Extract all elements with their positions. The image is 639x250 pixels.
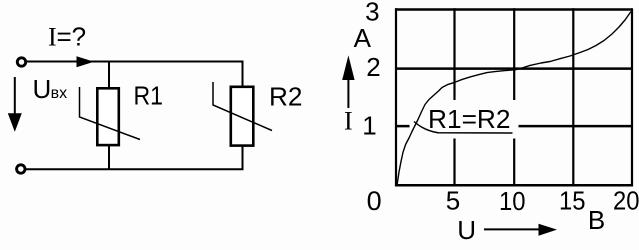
svg-text:U: U — [457, 215, 476, 245]
svg-text:1: 1 — [362, 111, 376, 141]
svg-text:I: I — [48, 23, 57, 52]
svg-text:U: U — [33, 74, 52, 104]
svg-text:R1=R2: R1=R2 — [428, 104, 511, 134]
svg-text:A: A — [354, 23, 372, 53]
svg-text:I: I — [344, 107, 353, 136]
svg-text:вх: вх — [51, 85, 68, 102]
svg-text:15: 15 — [559, 186, 586, 216]
svg-text:R2: R2 — [269, 82, 303, 112]
svg-text:10: 10 — [499, 186, 526, 216]
svg-text:2: 2 — [366, 52, 380, 82]
svg-text:20: 20 — [613, 186, 639, 216]
svg-text:B: B — [588, 205, 605, 235]
svg-text:5: 5 — [446, 186, 460, 216]
svg-text:0: 0 — [367, 186, 382, 216]
svg-text:=?: =? — [57, 22, 87, 52]
svg-text:R1: R1 — [134, 81, 164, 111]
